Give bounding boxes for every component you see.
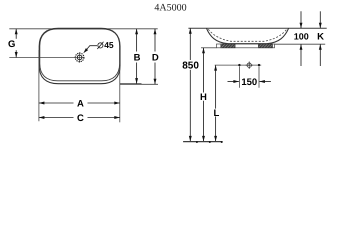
dimension 850 xyxy=(189,28,191,60)
supply dot left xyxy=(238,64,240,66)
dimension A xyxy=(39,102,74,104)
svg-text:4A5000: 4A5000 xyxy=(154,3,186,14)
svg-text:45: 45 xyxy=(104,40,114,50)
extension line right (A/C) xyxy=(119,50,121,122)
countertop bottom extension left xyxy=(201,47,217,49)
dimension L xyxy=(215,65,217,109)
D bottom reference line xyxy=(120,83,158,85)
countertop hatch right xyxy=(258,44,272,48)
supply dot right xyxy=(258,64,260,66)
basin inner outline (top view) xyxy=(40,29,120,81)
dimension G xyxy=(15,29,17,39)
B bottom reference line xyxy=(120,83,142,85)
extension line from left dot xyxy=(238,67,240,88)
drain centerline xyxy=(9,57,75,59)
hidden bowl line (dashed) xyxy=(208,29,286,41)
extension line left (A/C) xyxy=(38,50,40,121)
countertop top extension right xyxy=(275,43,326,45)
drain symbol xyxy=(75,52,85,62)
countertop hatch left xyxy=(221,44,235,48)
countertop band xyxy=(217,44,275,48)
floor line xyxy=(183,141,223,143)
dimension K xyxy=(319,11,321,28)
extension line from right dot xyxy=(258,67,260,88)
basin hull (side view) xyxy=(207,28,289,43)
svg-text:L: L xyxy=(213,108,219,119)
svg-text:K: K xyxy=(317,31,324,42)
svg-text:150: 150 xyxy=(241,77,257,88)
label O45 xyxy=(97,42,103,49)
dimension C xyxy=(39,117,74,119)
rim top line (side view) xyxy=(188,27,326,29)
svg-text:G: G xyxy=(8,39,15,50)
floor hatch ticks xyxy=(196,141,223,143)
svg-text:A: A xyxy=(77,99,84,110)
svg-text:C: C xyxy=(77,113,84,124)
svg-text:H: H xyxy=(200,92,207,103)
dimension 100 xyxy=(300,11,302,28)
leader line O45 xyxy=(87,46,97,49)
svg-text:850: 850 xyxy=(182,60,199,71)
dimension D xyxy=(154,29,156,52)
supply connection line xyxy=(215,64,262,66)
top extension line (top view, rear edge) xyxy=(9,28,157,30)
dimension B xyxy=(136,29,138,52)
svg-text:B: B xyxy=(134,53,141,64)
dimension 150 xyxy=(228,81,239,83)
dimension H xyxy=(203,48,205,93)
basin outer outline (top view) xyxy=(39,28,120,83)
drain position symbol (cross) xyxy=(246,62,253,69)
svg-text:D: D xyxy=(152,53,159,64)
svg-text:100: 100 xyxy=(294,31,309,41)
